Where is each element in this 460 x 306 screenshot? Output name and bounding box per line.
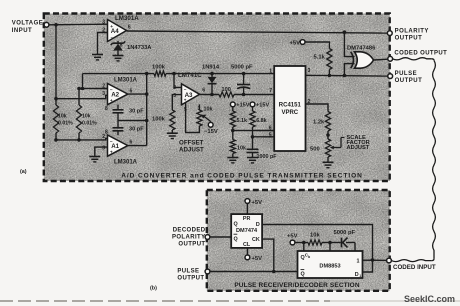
svg-text:CODED INPUT: CODED INPUT	[393, 264, 436, 271]
svg-text:+: +	[110, 151, 113, 156]
svg-text:5000 pF: 5000 pF	[334, 230, 356, 236]
svg-text:DM747486: DM747486	[347, 46, 376, 52]
svg-text:1.2k: 1.2k	[313, 120, 325, 126]
svg-text:10k: 10k	[310, 233, 320, 239]
svg-text:−: −	[111, 37, 114, 42]
svg-text:5: 5	[269, 132, 272, 138]
svg-text:−: −	[110, 89, 113, 94]
svg-text:5000 pF: 5000 pF	[231, 65, 253, 71]
svg-text:CODED OUTPUT: CODED OUTPUT	[394, 50, 447, 56]
svg-text:500: 500	[310, 146, 320, 152]
svg-text:A/D CONVERTER and CODED PULSE: A/D CONVERTER and CODED PULSE TRANSMITTE…	[121, 172, 363, 179]
svg-text:30 pF: 30 pF	[129, 127, 144, 133]
svg-text:OFFSET: OFFSET	[179, 140, 204, 147]
svg-text:LM301A: LM301A	[114, 78, 138, 84]
svg-text:+5V: +5V	[252, 200, 263, 206]
svg-text:+15V: +15V	[236, 103, 249, 109]
svg-text:VPRC: VPRC	[281, 110, 298, 116]
svg-text:3: 3	[102, 19, 105, 25]
svg-text:3: 3	[173, 93, 176, 99]
svg-text:+: +	[184, 98, 187, 103]
svg-text:Q: Q	[234, 221, 238, 227]
svg-text:−: −	[184, 87, 187, 92]
svg-text:PULSE RECEIVER/DECODER SECTION: PULSE RECEIVER/DECODER SECTION	[234, 282, 359, 289]
svg-text:7: 7	[269, 88, 272, 94]
svg-text:6: 6	[130, 88, 133, 94]
svg-text:−: −	[110, 140, 113, 145]
svg-text:DM7474: DM7474	[236, 228, 258, 234]
svg-text:10k: 10k	[204, 106, 213, 112]
svg-text:2: 2	[308, 99, 311, 105]
svg-text:PULSE: PULSE	[395, 71, 418, 77]
svg-text:ADJUST: ADJUST	[347, 145, 370, 151]
svg-text:(b): (b)	[150, 285, 157, 291]
svg-text:6: 6	[202, 88, 205, 94]
svg-text:0.01%: 0.01%	[82, 120, 97, 126]
svg-text:VOLTAGE: VOLTAGE	[12, 21, 44, 27]
svg-text:PR: PR	[243, 216, 251, 222]
svg-text:8: 8	[120, 43, 123, 49]
svg-text:2: 2	[102, 28, 105, 34]
svg-text:3: 3	[102, 91, 105, 97]
svg-text:1N4733A: 1N4733A	[127, 45, 152, 51]
svg-text:D: D	[256, 222, 260, 228]
svg-text:100k: 100k	[152, 64, 166, 70]
svg-text:POLARITY: POLARITY	[395, 29, 429, 35]
svg-text:+5V: +5V	[287, 234, 298, 240]
svg-text:OUTPUT: OUTPUT	[177, 276, 204, 282]
svg-text:100k: 100k	[152, 117, 166, 123]
svg-text:RC4151: RC4151	[279, 102, 302, 108]
svg-text:2: 2	[173, 85, 176, 91]
svg-text:−15V: −15V	[204, 129, 218, 135]
svg-text:DM8853: DM8853	[319, 264, 340, 270]
svg-text:30 pF: 30 pF	[129, 109, 144, 115]
svg-text:1000 pF: 1000 pF	[257, 154, 278, 160]
svg-text:LM301A: LM301A	[115, 15, 139, 22]
svg-text:3: 3	[102, 145, 105, 151]
svg-text:1: 1	[359, 274, 361, 278]
svg-text:+15V: +15V	[256, 103, 269, 109]
svg-text:1: 1	[269, 68, 272, 74]
svg-text:8: 8	[105, 106, 108, 112]
svg-text:ADJUST: ADJUST	[179, 147, 204, 154]
svg-text:100: 100	[222, 87, 231, 93]
svg-text:+5V: +5V	[290, 40, 301, 46]
svg-text:0.01%: 0.01%	[58, 120, 73, 126]
svg-text:10k: 10k	[82, 114, 91, 120]
svg-text:PULSE: PULSE	[177, 268, 199, 274]
svg-text:CK: CK	[252, 237, 260, 243]
svg-text:1: 1	[198, 106, 201, 112]
svg-text:CL: CL	[243, 242, 251, 248]
svg-text:6: 6	[128, 25, 131, 31]
svg-text:INPUT: INPUT	[12, 28, 33, 34]
svg-text:+: +	[110, 25, 113, 30]
svg-text:OUTPUT: OUTPUT	[178, 242, 205, 248]
svg-text:LM301A: LM301A	[114, 159, 138, 165]
svg-text:5: 5	[184, 107, 187, 113]
svg-text:D: D	[355, 272, 359, 278]
svg-text:+5V: +5V	[252, 256, 263, 262]
svg-text:5.1k: 5.1k	[237, 118, 248, 124]
svg-text:OUTPUT: OUTPUT	[395, 36, 423, 42]
svg-text:Q: Q	[234, 236, 238, 242]
svg-text:1: 1	[357, 258, 360, 264]
svg-text:6: 6	[269, 126, 272, 132]
svg-text:5.1k: 5.1k	[314, 55, 326, 61]
svg-text:+: +	[110, 99, 113, 104]
svg-text:SeekIC.com: SeekIC.com	[404, 294, 455, 304]
svg-text:3: 3	[308, 68, 311, 74]
svg-text:1N914: 1N914	[202, 65, 220, 71]
svg-text:10k: 10k	[237, 146, 246, 152]
svg-text:POLARITY: POLARITY	[172, 235, 206, 241]
svg-text:(a): (a)	[20, 169, 27, 175]
svg-text:DECODED: DECODED	[173, 228, 206, 234]
svg-text:LM741C: LM741C	[178, 72, 202, 79]
svg-text:OUTPUT: OUTPUT	[395, 78, 423, 84]
svg-text:Q: Q	[301, 272, 305, 278]
svg-text:6.8k: 6.8k	[256, 118, 267, 124]
svg-text:6: 6	[130, 140, 133, 146]
svg-text:8: 8	[105, 129, 108, 135]
svg-text:2: 2	[102, 84, 105, 90]
svg-text:10k: 10k	[58, 114, 67, 120]
